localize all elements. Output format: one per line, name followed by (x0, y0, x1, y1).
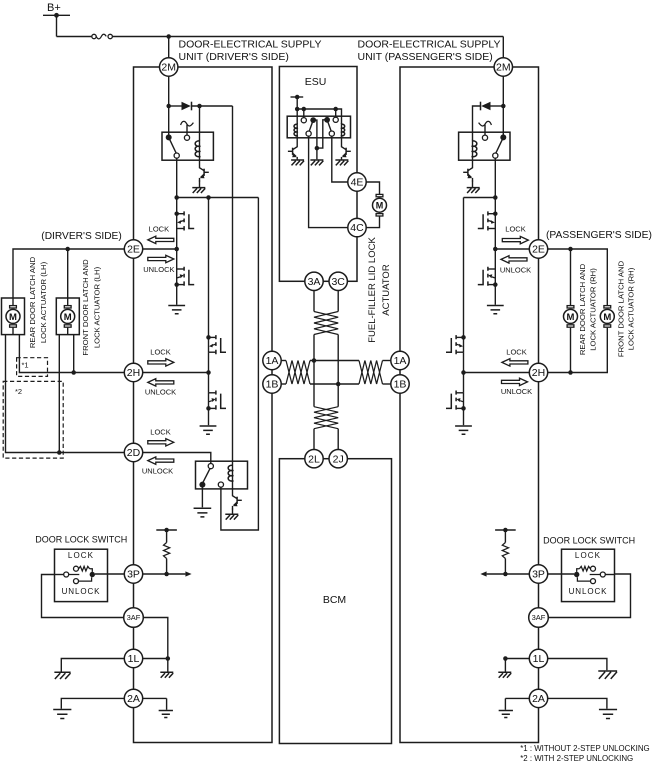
wire fet to ground 2E passenger (494, 285, 496, 305)
contact1 ESU (301, 118, 306, 123)
svg-text:ACTUATOR: ACTUATOR (381, 264, 392, 316)
wire diode to coil driver (199, 106, 201, 140)
svg-text:3P: 3P (127, 569, 140, 581)
wire to 2L (313, 429, 315, 450)
svg-text:LOCK: LOCK (68, 551, 94, 560)
contact2 ESU (333, 117, 338, 122)
relay K2 second contact (218, 482, 223, 487)
junction 2E passenger (493, 247, 498, 252)
wire 4E to fuel motor (366, 182, 379, 194)
motor M front RH (600, 306, 614, 328)
junction ESU rail c1 (302, 107, 307, 112)
relay box ESU (287, 116, 350, 138)
svg-text:LOCK: LOCK (150, 348, 170, 357)
ground 1L left driver (54, 672, 70, 679)
svg-text:2A: 2A (127, 693, 140, 705)
arrow 3P driver (185, 571, 191, 576)
wire 2E to unlock fet passenger (494, 249, 496, 269)
svg-text:LOCK: LOCK (149, 225, 169, 234)
junction 1B row (336, 382, 341, 387)
svg-text:2H: 2H (532, 367, 545, 379)
connector 1L driver (124, 649, 142, 667)
box door-electrical supply unit passenger (400, 67, 539, 743)
wire 1A lead left (281, 360, 286, 362)
wire fet to ground 2E (176, 285, 178, 305)
junction front actuator 2H (71, 370, 76, 375)
connector 4C (348, 218, 366, 236)
junction 2H driver (206, 370, 211, 375)
wire front actuator right terminal (73, 335, 75, 373)
wire 2D contact return loop (221, 198, 259, 531)
wire 2H internal passenger (464, 372, 530, 374)
junction rear actuator feed passenger (568, 247, 573, 252)
ground 2H chain passenger (455, 426, 472, 434)
svg-text:UNLOCK: UNLOCK (62, 587, 101, 596)
relay K1 actuator link (181, 121, 194, 126)
connector 2A driver (124, 689, 142, 707)
switch S2 passenger (574, 566, 605, 583)
svg-text:4C: 4C (350, 222, 364, 234)
ground Q2 driver (225, 514, 238, 519)
svg-text:ESU: ESU (305, 76, 327, 88)
junction front actuator 2D (57, 450, 62, 455)
relay K2 arm (203, 469, 210, 483)
svg-text:2E: 2E (127, 244, 140, 256)
relay K3 coil (472, 140, 474, 157)
relay K2 fixed contact top (208, 464, 213, 469)
arrow unlock 2D driver (148, 457, 174, 464)
junction 1L driver (166, 656, 171, 661)
wire K2 pivot to ground (201, 485, 203, 508)
junction pivots ESU (315, 146, 320, 151)
svg-text:UNIT (DRIVER'S SIDE): UNIT (DRIVER'S SIDE) (179, 51, 289, 63)
ground Q1 driver (192, 188, 205, 193)
wire diode net to 2D relay coil (232, 106, 234, 464)
svg-text:1A: 1A (394, 355, 407, 367)
wire resistor to 3P passenger (504, 559, 506, 575)
label front actuator LH (81, 259, 102, 356)
wire 2H to unlock fet passenger (463, 373, 465, 393)
wire 2D internal (143, 453, 211, 464)
wire pivot2 jog ESU (317, 120, 327, 148)
svg-text:DOOR-ELECTRICAL SUPPLY: DOOR-ELECTRICAL SUPPLY (358, 39, 501, 51)
ground 1L internal driver (160, 672, 173, 677)
junction 1A row (312, 358, 317, 363)
junction 3P passenger (503, 572, 508, 577)
svg-text:UNLOCK: UNLOCK (500, 266, 531, 275)
arrow unlock 2E driver (148, 255, 174, 262)
connector 1B driver side (263, 375, 281, 393)
svg-text:REAR DOOR LATCH AND: REAR DOOR LATCH AND (578, 263, 587, 355)
dashed option box *2 (3, 381, 63, 458)
connector 2J (329, 450, 347, 468)
svg-text:LOCK ACTUATOR (LH): LOCK ACTUATOR (LH) (39, 261, 48, 343)
contact out2 ESU (329, 131, 334, 136)
junction diode branch driver (166, 104, 171, 109)
wire diode out passenger (473, 106, 481, 140)
wire to 2J (337, 429, 339, 450)
junction rail/driver (166, 34, 171, 39)
motor M front LH (61, 298, 75, 335)
twisted pair 1A/1B left (286, 361, 310, 385)
dashed option box *1 (17, 358, 48, 377)
wire resistor to 3P (166, 559, 168, 575)
label passenger unit title (358, 39, 501, 64)
wire pivots to ground ESU (316, 148, 318, 159)
wire feed to 2E fet (176, 198, 178, 214)
wire pivot1 jog ESU (313, 120, 317, 148)
motor M rear LH (6, 298, 20, 335)
mosfet unlock low-side 2H driver (209, 392, 216, 394)
motor M rear RH (564, 306, 578, 328)
wire 2E to actuators driver (13, 249, 124, 298)
wire switch common to right (605, 574, 614, 576)
arrow lock 2D driver (148, 439, 174, 446)
wire 3P internal passenger (487, 573, 530, 575)
wire diode out driver (192, 105, 233, 107)
svg-text:*2 : WITH 2-STEP UNLOCKING: *2 : WITH 2-STEP UNLOCKING (520, 754, 633, 763)
svg-text:REAR DOOR LATCH AND: REAR DOOR LATCH AND (28, 256, 37, 348)
relay K1 pivot (166, 134, 177, 153)
svg-text:3C: 3C (331, 276, 345, 288)
coil right ESU (341, 123, 343, 135)
transistor Q5 passenger (468, 166, 473, 171)
wire 3AF loop passenger (548, 574, 630, 618)
wire stub to resistor (166, 530, 168, 543)
relay K2 coil (232, 464, 234, 481)
wire 2H to unlock fet (208, 373, 210, 393)
svg-text:DOOR LOCK SWITCH: DOOR LOCK SWITCH (543, 536, 635, 546)
wire rear actuator to 2H passenger (570, 328, 572, 373)
wire Q2 emitter to ground (232, 509, 234, 515)
ground Q4 ESU (335, 160, 348, 165)
svg-text:3AF: 3AF (532, 613, 546, 622)
label rear actuator LH (28, 256, 48, 348)
relay K3 passenger box (459, 132, 510, 160)
wire front actuator left terminal (58, 335, 60, 453)
svg-text:1A: 1A (266, 355, 279, 367)
relay K3 pivot (496, 134, 507, 153)
wire stub to resistor passenger (504, 530, 506, 543)
wire lock feed bus passenger (464, 197, 496, 199)
junction 2H feed (206, 195, 211, 200)
wire coil1 to transistor ESU (296, 135, 298, 145)
junction 2H passenger (461, 370, 466, 375)
wire Q1 emitter to ground (199, 181, 201, 188)
box front door latch actuator LH (56, 298, 79, 335)
ground 2A internal passenger (499, 711, 513, 718)
connector 3P passenger (529, 565, 547, 583)
relay K2 driver box (196, 461, 248, 489)
ground Q5 passenger (467, 188, 480, 193)
relay K3 fixed contact (482, 135, 487, 140)
connector 2M passenger (494, 58, 512, 76)
ground Q3 ESU (291, 160, 304, 165)
junction ESU rail c2 (333, 107, 338, 112)
relay pivot1 ESU (309, 117, 316, 131)
relay K1 moving contact (174, 153, 179, 158)
wire 1A lead right (383, 360, 391, 362)
svg-text:3AF: 3AF (127, 613, 141, 622)
svg-text:3P: 3P (532, 569, 545, 581)
svg-text:1B: 1B (394, 379, 407, 391)
wire 2E to actuators passenger (548, 249, 608, 305)
wire contact out1 to 4C (309, 136, 348, 227)
mosfet unlock low-side 2E passenger (488, 268, 495, 270)
wire switch to 3P driver (95, 573, 124, 575)
arrow 3P passenger (480, 571, 486, 576)
svg-text:UNLOCK: UNLOCK (501, 387, 532, 396)
svg-text:2L: 2L (308, 453, 320, 465)
mosfet lock high-side 2E passenger (493, 211, 498, 216)
wire fet to 2H junction (208, 352, 210, 372)
svg-text:1L: 1L (533, 653, 545, 665)
wire 1L internal driver (143, 658, 168, 660)
box BCM (279, 459, 391, 744)
svg-text:DOOR LOCK SWITCH: DOOR LOCK SWITCH (35, 535, 127, 545)
wire front actuator feed driver (67, 249, 69, 298)
wire stub contact1 ESU (303, 109, 305, 118)
junction front actuator feed driver (65, 247, 70, 252)
wire left mid vertical (313, 335, 315, 407)
arrow unlock 2E passenger (501, 256, 527, 263)
ground K2 driver (194, 508, 212, 517)
transistor Q2 driver (233, 494, 238, 499)
wire 1B lead right (383, 383, 391, 385)
resistor R1 driver (164, 543, 170, 559)
wire 2A to right ground passenger (548, 698, 607, 708)
svg-text:M: M (9, 312, 17, 323)
junction diode out driver (197, 104, 202, 109)
wire 2A internal driver (143, 697, 167, 699)
wire fet to ground 2H passenger (463, 408, 465, 425)
coil left ESU (296, 123, 298, 135)
relay pivot2 ESU (324, 117, 331, 131)
wire 2A to left ground (61, 698, 124, 708)
ground 1L internal passenger (498, 672, 511, 677)
svg-text:2M: 2M (161, 62, 176, 74)
wire feed to 2H fet (208, 198, 210, 338)
box rear door latch actuator LH (2, 298, 25, 335)
relay K1 driver box (162, 132, 213, 160)
svg-text:LOCK ACTUATOR (LH): LOCK ACTUATOR (LH) (93, 266, 102, 348)
mosfet lock high-side 2H passenger (461, 335, 466, 340)
arrow unlock 2H passenger (502, 378, 528, 385)
svg-text:UNLOCK: UNLOCK (142, 467, 173, 476)
wire fet to 2E junction passenger (494, 229, 496, 250)
wire 1L to ground internal (167, 659, 169, 672)
box door-electrical supply unit driver (134, 67, 273, 743)
connector 3A (305, 272, 323, 290)
wire 1L to ground internal passenger (504, 659, 506, 672)
svg-text:UNLOCK: UNLOCK (569, 587, 608, 596)
twisted pair 1A/1B right (359, 361, 383, 385)
svg-text:M: M (603, 312, 611, 323)
wire fet to 2E junction (176, 229, 178, 250)
supply stub 3P resistor passenger (495, 528, 516, 533)
connector 2A passenger (529, 689, 547, 707)
svg-text:3A: 3A (308, 276, 321, 288)
mosfet unlock low-side 2H passenger (456, 392, 463, 394)
battery feed B+ terminal (43, 13, 70, 18)
wire lock feed bus driver (177, 197, 259, 199)
wire feed to 2H fet passenger (463, 198, 465, 338)
twisted pair lower (314, 407, 338, 429)
wire Q5 emitter to ground (472, 181, 474, 188)
wire coil to transistor passenger (472, 156, 474, 166)
junction 1L passenger (503, 656, 508, 661)
ground 2A right passenger (599, 710, 617, 719)
svg-text:(PASSENGER'S SIDE): (PASSENGER'S SIDE) (546, 230, 652, 241)
svg-text:FRONT DOOR LATCH AND: FRONT DOOR LATCH AND (81, 259, 90, 356)
svg-text:2M: 2M (496, 62, 511, 74)
label driver unit title (179, 39, 322, 64)
connector 3P driver (124, 565, 142, 583)
wire ESU rail (297, 109, 341, 124)
wire feed to 2E fet passenger (494, 198, 496, 214)
relay K1 fixed contact (184, 135, 189, 140)
svg-text:2J: 2J (333, 453, 344, 465)
connector 2H driver (124, 363, 142, 381)
transistor Q3 ESU (293, 145, 298, 150)
mosfet unlock low-side 2E driver (177, 268, 184, 270)
svg-text:*1 : WITHOUT 2-STEP UNLOCKING: *1 : WITHOUT 2-STEP UNLOCKING (520, 744, 650, 753)
relay K3 moving contact (493, 153, 498, 158)
arrow lock 2H driver (148, 359, 174, 366)
junction relay out / 2E branch (174, 195, 179, 200)
wire 2E to unlock fet (176, 249, 178, 269)
svg-text:LOCK: LOCK (505, 225, 525, 234)
wire switch to 3AF driver (42, 575, 124, 618)
wire 3AF loop driver (143, 618, 168, 659)
switch S1 driver (64, 566, 95, 583)
ground 2H chain driver (200, 426, 217, 434)
connector 3C (329, 272, 347, 290)
junction 3P driver (164, 572, 169, 577)
wire coil to transistor driver (199, 156, 201, 166)
wire 2M to relay (168, 76, 170, 137)
wire relay out driver (176, 158, 178, 197)
wire rail to passenger 2M (502, 37, 504, 58)
label rear actuator RH (578, 263, 598, 355)
wire rail to driver 2M (168, 37, 170, 58)
ground 1L right passenger (598, 671, 617, 679)
wire switch common to left (55, 574, 64, 576)
wire switch to 3P passenger (548, 573, 574, 575)
motor M fuel-filler (373, 194, 387, 216)
arrow lock 2E driver (148, 236, 174, 243)
svg-text:2E: 2E (532, 244, 545, 256)
connector 2H passenger (529, 363, 547, 381)
wire 3P internal (143, 573, 186, 575)
connector 2E passenger (529, 240, 547, 258)
diode D1 driver (182, 102, 191, 111)
wire 1B mid (310, 383, 359, 385)
svg-text:1L: 1L (128, 653, 140, 665)
wire fet to 2H junction passenger (463, 352, 465, 372)
connector 1A passenger side (391, 351, 409, 369)
wire rail left (57, 36, 92, 38)
svg-text:LOCK: LOCK (575, 551, 601, 560)
ground 2A left driver (53, 710, 71, 719)
wire 3A down (313, 291, 315, 312)
svg-text:UNLOCK: UNLOCK (143, 265, 174, 274)
wire fuel motor to 4C (366, 216, 379, 227)
svg-text:LOCK: LOCK (506, 348, 526, 357)
relay K1 coil (199, 140, 201, 157)
box door lock switch driver (55, 549, 108, 601)
relay K3 actuator link (479, 121, 492, 126)
arrow unlock 2H driver (148, 379, 174, 386)
svg-text:1B: 1B (266, 379, 279, 391)
twisted pair upper (314, 312, 338, 335)
svg-text:*2: *2 (15, 387, 22, 396)
junction diode branch passenger (501, 104, 506, 109)
wire rear actuator to 2D driver (6, 335, 125, 453)
connector 4E (348, 173, 366, 191)
svg-text:M: M (64, 312, 72, 323)
svg-text:(DIRVER'S SIDE): (DIRVER'S SIDE) (41, 231, 121, 242)
svg-text:BCM: BCM (323, 594, 346, 606)
arrow lock 2E passenger (502, 236, 528, 243)
wire rear actuator feed passenger (570, 249, 572, 305)
label front actuator RH (616, 260, 635, 357)
wire 3C down (337, 291, 339, 312)
junction relay out passenger (493, 195, 498, 200)
wire 2E internal passenger (495, 248, 529, 250)
svg-text:B+: B+ (47, 2, 61, 14)
fuse F (inline connector) (92, 34, 113, 39)
ground 2E chain driver (168, 306, 185, 314)
wire relay out passenger (494, 158, 496, 197)
svg-text:*1: *1 (22, 361, 29, 370)
svg-text:LOCK ACTUATOR (RH): LOCK ACTUATOR (RH) (589, 268, 598, 351)
svg-text:2D: 2D (127, 447, 141, 459)
svg-text:2A: 2A (532, 693, 545, 705)
diode D2 passenger (481, 102, 490, 111)
svg-text:4E: 4E (351, 177, 364, 189)
label fuel-filler actuator (367, 237, 392, 343)
wire to diode driver (169, 105, 182, 107)
wire 1L to right ground passenger (548, 659, 607, 671)
box door lock switch passenger (562, 549, 615, 601)
wire 1L to left ground (61, 659, 124, 672)
wire coil2 to transistor ESU (341, 135, 343, 145)
junction 2E driver (174, 247, 179, 252)
connector 1L passenger (529, 649, 547, 667)
wire stub contact2 ESU (335, 109, 337, 117)
connector 2D driver (124, 443, 142, 461)
wire K2 coil to transistor (232, 480, 234, 493)
supply stub ESU (291, 95, 304, 100)
svg-text:FRONT DOOR LATCH AND: FRONT DOOR LATCH AND (616, 260, 625, 357)
svg-text:LOCK ACTUATOR (RH): LOCK ACTUATOR (RH) (626, 267, 635, 350)
supply stub 3P resistor driver (156, 528, 177, 533)
svg-text:M: M (376, 201, 384, 211)
connector 2M driver (160, 58, 178, 76)
svg-text:M: M (567, 312, 575, 323)
wire 2M to relay passenger (502, 76, 504, 137)
wire 2A internal passenger (505, 697, 529, 699)
wire rear actuator to 2H driver (19, 335, 124, 373)
connector 2L (305, 450, 323, 468)
relay K2 pivot (199, 482, 205, 488)
wire right mid vertical (337, 335, 339, 407)
wire 2E internal (143, 248, 177, 250)
svg-text:FUEL-FILLER LID LOCK: FUEL-FILLER LID LOCK (367, 237, 378, 343)
wire ESU supply down (296, 97, 298, 124)
wire rail main (113, 36, 503, 38)
